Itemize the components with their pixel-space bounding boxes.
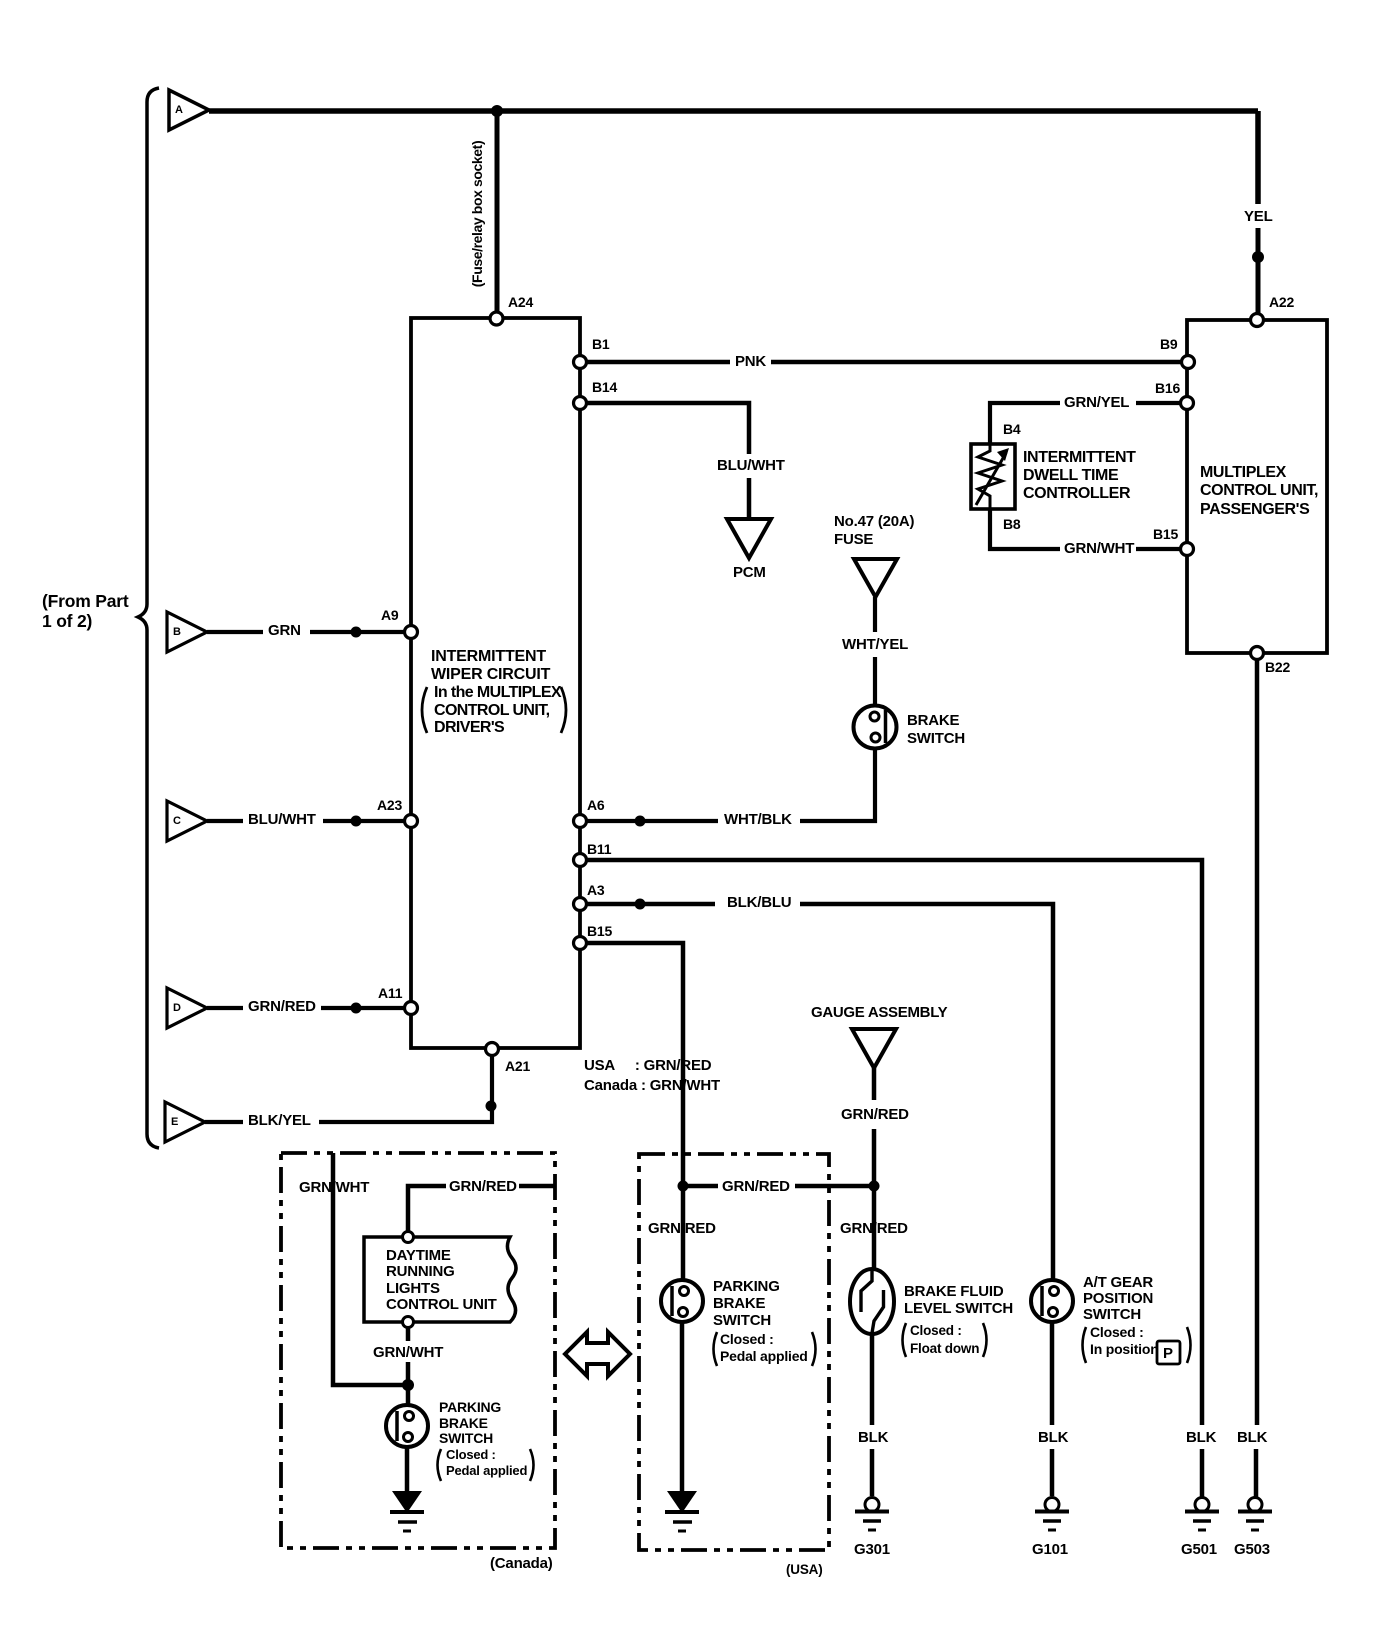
terminal circle A23 — [405, 815, 418, 828]
terminal circle B11 — [574, 854, 587, 867]
label B4 — [1003, 422, 1021, 436]
double arrow canada/usa — [565, 1332, 630, 1376]
box intermittent wiper circuit — [411, 318, 580, 1048]
label A21 — [505, 1059, 530, 1073]
wire D GRN/RED segments — [207, 1006, 404, 1010]
wire to usa ground — [680, 1322, 685, 1492]
label B11 — [587, 842, 611, 856]
junction dot BLU/WHT — [351, 816, 362, 827]
wire B22 down — [1256, 659, 1257, 1497]
label usa parking closed block — [720, 1331, 808, 1365]
label B8 — [1003, 517, 1021, 531]
label B22 — [1265, 660, 1290, 674]
big parens wiper text — [422, 687, 566, 733]
label A in connector — [175, 105, 183, 116]
junction dot GRN/RED — [351, 1003, 362, 1014]
label brake switch — [907, 712, 965, 747]
terminal circle B15 right — [1181, 543, 1194, 556]
box multiplex control unit passenger's — [1187, 320, 1327, 653]
label GRN/RED left — [248, 999, 316, 1014]
junction dot canada — [402, 1379, 414, 1391]
terminal circle B9 — [1182, 356, 1195, 369]
wire B15 down — [583, 943, 683, 1280]
label parking brake switch canada — [439, 1400, 501, 1447]
wire B15 GRN/WHT from controller — [990, 509, 1181, 549]
label BLK g503 — [1237, 1430, 1267, 1445]
wire B GRN segments — [207, 630, 405, 634]
label BLU/WHT pcm — [717, 458, 785, 473]
box usa dashed — [639, 1154, 829, 1550]
boxed P symbol — [1157, 1341, 1180, 1364]
wire YEL upper segment — [1255, 111, 1261, 204]
connector A — [169, 90, 209, 130]
wire WHT/YEL — [873, 597, 877, 707]
wire YEL lower segment — [1256, 228, 1261, 315]
terminal circle B15 — [574, 937, 587, 950]
label B in connector — [173, 627, 181, 638]
wire GRN/RED canada — [408, 1186, 555, 1237]
label A23 — [377, 798, 402, 812]
ground usa (chassis) — [665, 1491, 699, 1531]
wire BLK G101 — [1050, 1322, 1055, 1496]
big parens brake fluid — [903, 1323, 987, 1357]
label B9 — [1160, 337, 1178, 351]
box canada dashed — [281, 1153, 555, 1548]
wire B16 GRN/YEL — [990, 403, 1181, 444]
label G503 — [1234, 1542, 1270, 1557]
terminal circle A21 — [486, 1043, 499, 1056]
ground G301 — [855, 1498, 889, 1531]
label GRN/RED usa left — [648, 1221, 716, 1236]
label GRN/WHT right — [1064, 541, 1134, 556]
label A24 — [508, 295, 533, 309]
connector D — [167, 988, 207, 1028]
wire GRN/WHT canada lower — [406, 1327, 411, 1405]
terminal circle A24 — [490, 312, 503, 325]
resistor intermittent dwell time controller — [971, 444, 1015, 509]
label usa canada legend — [584, 1056, 720, 1096]
bracket (From Part 1 of 2) — [138, 88, 159, 1148]
a/t gear position switch — [1031, 1280, 1073, 1322]
label brake fluid closed block — [910, 1322, 979, 1358]
label wiper circuit paren block — [434, 684, 561, 737]
label BLK/BLU — [727, 895, 791, 910]
label YEL — [1244, 209, 1273, 224]
label G101 — [1032, 1542, 1068, 1557]
parking brake switch canada — [386, 1405, 428, 1447]
wire B1 to B9 PNK — [586, 360, 1182, 365]
label daytime running lights control unit — [386, 1248, 497, 1313]
parking brake switch usa — [661, 1280, 703, 1322]
wire BLK G301 — [870, 1333, 875, 1496]
label BLK g501 — [1186, 1430, 1216, 1445]
big parens a/t gear — [1083, 1327, 1191, 1363]
junction dot YEL — [1252, 251, 1264, 263]
junction dot GRN — [351, 627, 362, 638]
terminal circle A11 — [405, 1002, 418, 1015]
label GRN/RED usa right — [840, 1221, 908, 1236]
label (From Part 1 of 2) — [42, 592, 128, 631]
ground G101 — [1035, 1498, 1069, 1531]
PCM triangle — [727, 519, 771, 558]
label A22 — [1269, 295, 1294, 309]
label G501 — [1181, 1542, 1217, 1557]
terminal circle A6 — [574, 815, 587, 828]
label PNK — [735, 354, 766, 369]
label gauge assembly — [811, 1005, 947, 1020]
gauge assembly triangle — [852, 1029, 896, 1068]
wire GRN/RED gauge — [872, 1068, 877, 1280]
label BLK g101 — [1038, 1430, 1068, 1445]
ground G501 — [1185, 1498, 1219, 1531]
label D in connector — [173, 1003, 181, 1014]
label A3 — [587, 883, 605, 897]
terminal circle B1 — [574, 356, 587, 369]
label GRN — [268, 623, 301, 638]
terminal circle A3 — [574, 898, 587, 911]
ground canada (chassis) — [390, 1491, 424, 1531]
label intermittent dwell time controller — [1023, 449, 1136, 503]
label WHT/YEL — [842, 637, 908, 652]
label GRN/RED canada — [449, 1179, 517, 1194]
label E in connector — [171, 1117, 178, 1128]
label WHT/BLK — [724, 812, 792, 827]
terminal circle A9 — [405, 626, 418, 639]
wire top A to A22 corner — [209, 108, 1258, 114]
wire GRN/WHT canada branch — [333, 1153, 408, 1385]
wire C BLU/WHT segments — [207, 819, 405, 823]
big parens canada parking — [438, 1449, 534, 1481]
label canada parking closed block — [446, 1447, 527, 1480]
connector C — [167, 801, 207, 841]
label PCM — [733, 565, 766, 580]
label (USA) — [786, 1563, 823, 1577]
wire B14 to PCM BLU/WHT — [586, 403, 749, 521]
label B1 — [592, 337, 610, 351]
terminal circle B14 — [574, 397, 587, 410]
label multiplex control unit passenger's — [1200, 464, 1318, 519]
junction dot BLK/YEL — [486, 1101, 497, 1112]
wire A3 BLK/BLU — [584, 904, 1053, 1280]
daytime running lights control unit box — [364, 1237, 516, 1322]
wire GRN/RED usa horizontal — [683, 1184, 874, 1189]
label (Canada) — [490, 1556, 553, 1571]
label No.47 fuse — [834, 513, 914, 549]
label GRN/RED usa mid — [722, 1179, 790, 1194]
junction dot gauge GRN/RED — [869, 1181, 880, 1192]
big parens usa parking — [714, 1332, 816, 1366]
wire fuse/relay vertical — [495, 111, 500, 313]
junction dot fuse/relay — [491, 105, 503, 117]
connector E — [165, 1102, 205, 1142]
label GRN/RED gauge — [841, 1107, 909, 1122]
terminal circle B22 — [1251, 647, 1264, 660]
wire WHT/BLK — [586, 750, 875, 821]
label GRN/YEL — [1064, 395, 1129, 410]
label BLU/WHT left — [248, 812, 316, 827]
brake switch — [854, 706, 897, 749]
connector B — [167, 612, 207, 652]
label C in connector — [173, 816, 181, 827]
fuse No.47 (20A) — [854, 559, 897, 597]
wire B11 long — [583, 860, 1202, 1497]
label GRN/WHT canada top — [299, 1180, 369, 1195]
label GRN/WHT canada lower — [373, 1345, 443, 1360]
junction dot WHT/BLK — [635, 816, 646, 827]
label (Fuse/relay box socket) — [470, 141, 484, 287]
label B15 — [587, 924, 612, 938]
label a/t closed block — [1090, 1324, 1159, 1357]
label parking brake switch usa — [713, 1278, 780, 1330]
label G301 — [854, 1542, 890, 1557]
label B14 — [592, 380, 617, 394]
label BLK g301 — [858, 1430, 888, 1445]
label A6 — [587, 798, 605, 812]
label intermittent wiper circuit — [431, 648, 550, 684]
label A11 — [378, 986, 402, 1000]
junction dot parking GRN/RED — [678, 1181, 689, 1192]
label BLK/YEL — [248, 1113, 311, 1128]
wire to canada ground — [405, 1447, 410, 1492]
label A9 — [381, 608, 399, 622]
label P in box — [1163, 1346, 1173, 1361]
label a/t gear position switch — [1083, 1275, 1153, 1324]
label B16 — [1155, 381, 1180, 395]
wire E BLK/YEL — [205, 1053, 492, 1122]
terminal circle A22 — [1251, 314, 1264, 327]
label B15 right — [1153, 527, 1178, 541]
label brake fluid level switch — [904, 1283, 1013, 1317]
brake fluid level switch — [850, 1269, 894, 1334]
junction dot BLK/BLU — [635, 899, 646, 910]
terminal circle DRL top — [403, 1232, 414, 1243]
terminal circle B16 — [1181, 397, 1194, 410]
terminal circle DRL bottom — [403, 1317, 414, 1328]
ground G503 — [1238, 1498, 1272, 1531]
